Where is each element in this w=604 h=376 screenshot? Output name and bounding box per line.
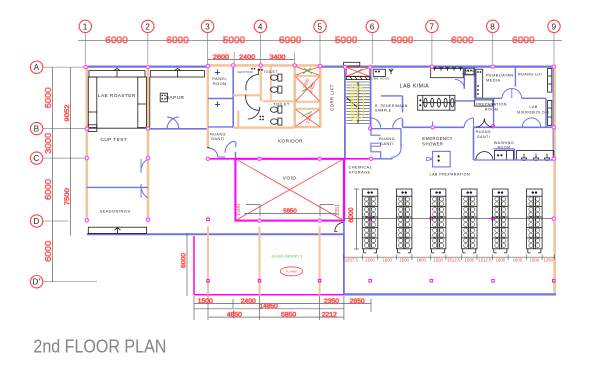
grid bubble 9 bbox=[548, 20, 560, 32]
svg-text:7: 7 bbox=[429, 22, 434, 31]
plant rack 3 bbox=[430, 189, 446, 253]
toilet stall front (peach) bbox=[270, 65, 272, 101]
plant rack 6 bbox=[527, 189, 543, 253]
grid bubble 8 bbox=[487, 20, 499, 32]
svg-text:2nd FLOOR PLAN: 2nd FLOOR PLAN bbox=[33, 335, 166, 356]
svg-text:MEJA: MEJA bbox=[465, 69, 474, 73]
exterior top wall right (blue) bbox=[322, 65, 556, 67]
svg-text:5850: 5850 bbox=[283, 209, 297, 215]
rack msq 1 bbox=[369, 217, 372, 220]
exterior top wall toilet block (peach) bbox=[206, 64, 322, 67]
svg-text:5: 5 bbox=[317, 22, 322, 31]
right shelf 1 bbox=[548, 68, 552, 92]
door arcs wall grid-2 bbox=[141, 159, 148, 173]
janitor door arcs bbox=[246, 75, 259, 111]
bottom dim ext lines bbox=[194, 296, 371, 320]
grid bubble 1 bbox=[79, 20, 91, 32]
lab kimia door arc bbox=[464, 118, 473, 127]
svg-text:14850: 14850 bbox=[259, 304, 278, 310]
svg-text:1512.5: 1512.5 bbox=[478, 257, 492, 262]
svg-text:KORIDOR: KORIDOR bbox=[278, 139, 303, 144]
svg-text:6000: 6000 bbox=[391, 35, 414, 45]
svg-text:3400: 3400 bbox=[270, 54, 287, 61]
lift X bottom bbox=[296, 109, 320, 126]
stove fixture dapur bbox=[160, 93, 167, 102]
void dim bracket bbox=[244, 213, 338, 215]
svg-text:2400: 2400 bbox=[241, 299, 257, 305]
preparation room right wall bbox=[493, 98, 495, 127]
cloud door arcs 2 bbox=[522, 118, 531, 127]
stair right wall (blue) bbox=[370, 67, 372, 129]
cup test partition (blue) bbox=[87, 186, 148, 188]
hall bottom blue segment bbox=[371, 158, 393, 160]
svg-text:5000: 5000 bbox=[335, 35, 358, 45]
ruang ganti right wall bbox=[400, 129, 402, 149]
canopy column 1 (peach) bbox=[207, 227, 209, 295]
svg-text:1500: 1500 bbox=[530, 257, 540, 262]
svg-text:2400: 2400 bbox=[239, 54, 256, 61]
hall node D2 bbox=[146, 218, 149, 221]
svg-text:6: 6 bbox=[370, 22, 375, 31]
svg-text:EMERGENCY: EMERGENCY bbox=[422, 136, 453, 142]
grid line D' bbox=[53, 281, 98, 283]
void node top 1 bbox=[258, 157, 261, 160]
green marks bottom bbox=[302, 112, 312, 117]
top wall node 3 bbox=[206, 64, 209, 67]
svg-text:6000: 6000 bbox=[512, 35, 535, 45]
top wall node 1 bbox=[84, 65, 87, 68]
washing counter bbox=[494, 151, 513, 160]
corridor wall fixture tick bbox=[432, 122, 434, 127]
green marks top bbox=[303, 68, 311, 74]
canopy right wall (blue) bbox=[343, 234, 345, 294]
hall node 3 bbox=[369, 157, 372, 160]
svg-text:2650: 2650 bbox=[350, 299, 366, 305]
svg-text:LAB: LAB bbox=[529, 105, 537, 109]
hall msq D1 bbox=[207, 218, 210, 221]
stair rail yellow 2 bbox=[353, 87, 363, 118]
canopy msq 2 bbox=[258, 280, 261, 283]
grid D line across racks bbox=[344, 218, 554, 220]
ruang ganti locker bbox=[371, 143, 381, 146]
wall2 node C bbox=[146, 156, 149, 159]
svg-text:1500: 1500 bbox=[433, 257, 443, 262]
sink counter bbox=[517, 151, 554, 160]
stair top escalator X bbox=[346, 67, 369, 76]
void node bottom 1 bbox=[258, 219, 261, 222]
svg-text:4850: 4850 bbox=[227, 312, 243, 318]
svg-text:6000: 6000 bbox=[279, 35, 302, 45]
lab roaster bench divider (B-line) bbox=[87, 127, 147, 129]
hall node 1 bbox=[206, 157, 209, 160]
toilet fixture 2 bbox=[271, 86, 282, 93]
svg-text:CORR LIFT: CORR LIFT bbox=[329, 84, 334, 111]
top wall node 2 bbox=[146, 65, 149, 68]
svg-text:DAPUR: DAPUR bbox=[166, 95, 185, 100]
svg-text:CUP TEST: CUP TEST bbox=[100, 137, 127, 142]
svg-text:1800: 1800 bbox=[416, 257, 426, 262]
ruang ganti door arc bbox=[391, 148, 401, 157]
grid bubble 2 bbox=[142, 20, 154, 32]
grid line 6 bbox=[371, 33, 373, 64]
lab prep fixture bbox=[433, 151, 451, 167]
svg-text:9052: 9052 bbox=[64, 104, 71, 121]
svg-text:2600: 2600 bbox=[213, 54, 230, 61]
top wall node 9 bbox=[552, 65, 555, 68]
svg-text:GLASS CANOPY 1: GLASS CANOPY 1 bbox=[272, 254, 304, 259]
corridor node 7 bbox=[431, 126, 434, 129]
left wall node B bbox=[85, 127, 88, 130]
lift node bbox=[319, 64, 322, 67]
pembuatan media bottom wall bbox=[475, 97, 502, 99]
grid line 5 bbox=[319, 33, 321, 64]
svg-text:D: D bbox=[33, 217, 39, 226]
fume hood box bbox=[373, 69, 385, 76]
corridor top wall toilets (peach) bbox=[233, 126, 294, 128]
svg-text:1837.5: 1837.5 bbox=[345, 257, 359, 262]
grid bubble 5 bbox=[314, 20, 326, 32]
ruang ganti top wall bbox=[371, 128, 401, 130]
grid line 7 bbox=[431, 33, 433, 64]
wall grid-2 (peach) bbox=[147, 66, 150, 220]
svg-text:3: 3 bbox=[205, 22, 210, 31]
rack dimension line bbox=[343, 256, 554, 258]
rack zone msq 1 bbox=[369, 280, 372, 283]
left wall node C bbox=[85, 156, 88, 159]
hall node 2 bbox=[258, 157, 261, 160]
canopy dim ext line bbox=[186, 233, 188, 296]
svg-text:1351: 1351 bbox=[335, 204, 341, 216]
grid line 9 bbox=[553, 33, 555, 64]
toilet mid wall (peach) bbox=[263, 100, 295, 102]
panel symbol 1 bbox=[215, 70, 220, 73]
preparation table bbox=[475, 100, 493, 106]
svg-text:TOILET: TOILET bbox=[263, 70, 278, 74]
top wall node j bbox=[232, 64, 235, 67]
lab kimia top bench bbox=[431, 68, 464, 77]
svg-text:C: C bbox=[33, 154, 39, 163]
panel room divider bbox=[208, 98, 233, 100]
svg-text:SHOWER: SHOWER bbox=[422, 142, 443, 148]
hall edge line (magenta) bbox=[208, 158, 371, 160]
svg-text:6000: 6000 bbox=[348, 207, 355, 223]
top wall node 4 bbox=[259, 64, 262, 67]
svg-text:1500: 1500 bbox=[464, 257, 474, 262]
void node top 2 bbox=[318, 157, 321, 160]
long hall wall (blue) bbox=[87, 233, 344, 235]
grid bubble D bbox=[30, 215, 42, 227]
exterior right wall (peach) bbox=[553, 66, 556, 295]
panel room left wall (peach) bbox=[207, 66, 209, 148]
plant rack 2 bbox=[396, 189, 412, 253]
ruang ganti door arc bbox=[209, 148, 225, 157]
rack msq 3 bbox=[492, 217, 495, 220]
toilet fixture 3 bbox=[271, 106, 282, 113]
svg-text:1500: 1500 bbox=[198, 299, 214, 305]
svg-text:LAB PREPARATION: LAB PREPARATION bbox=[429, 173, 470, 177]
r.penerimaan wall top bbox=[381, 95, 403, 97]
plant rack 4 bbox=[462, 189, 478, 253]
plant rack 1 bbox=[362, 189, 378, 253]
left dimension line bbox=[52, 67, 54, 282]
svg-text:RUANG: RUANG bbox=[476, 130, 491, 134]
stair landing hatch bbox=[346, 77, 369, 80]
meja timbang right wall bbox=[474, 67, 476, 99]
svg-text:ROOM: ROOM bbox=[213, 81, 227, 86]
top dimension line bbox=[78, 40, 562, 42]
lab roaster left counter bbox=[88, 77, 97, 128]
svg-text:6000: 6000 bbox=[43, 179, 53, 200]
bottom dim line 3 bbox=[209, 316, 344, 318]
canopy column 3 (peach) bbox=[319, 227, 321, 295]
washing room walls bbox=[494, 148, 515, 150]
svg-text:5000: 5000 bbox=[223, 35, 246, 45]
stair hall double door arcs bbox=[371, 118, 403, 128]
chemical storage door arc bbox=[335, 222, 344, 231]
svg-text:1500: 1500 bbox=[399, 257, 409, 262]
grid line D bbox=[53, 220, 69, 222]
corridor node right bbox=[552, 126, 555, 129]
canopy bottom edge (magenta) bbox=[194, 294, 344, 296]
panel room bottom wall bbox=[208, 126, 233, 128]
svg-text:GANTI: GANTI bbox=[477, 135, 490, 139]
svg-text:6000: 6000 bbox=[166, 35, 189, 45]
lab mikro divider wall bbox=[545, 98, 547, 127]
svg-text:GANTI: GANTI bbox=[211, 137, 225, 141]
grid bubble 3 bbox=[201, 20, 213, 32]
rack height dim line bbox=[356, 189, 358, 249]
stair wall node top bbox=[369, 66, 372, 69]
meja timbang door arc bbox=[455, 80, 464, 89]
grid bubble A bbox=[30, 61, 42, 73]
grid bubble 4 bbox=[254, 20, 266, 32]
lift shaft frame (peach) bbox=[293, 65, 296, 128]
rack node right bbox=[552, 217, 555, 220]
svg-text:ROOM: ROOM bbox=[485, 107, 498, 111]
lab kimia center bench bbox=[418, 95, 455, 110]
void node bottom 2 bbox=[318, 219, 321, 222]
toilet door dots bbox=[259, 116, 264, 121]
cloud door arcs 1 bbox=[502, 89, 512, 99]
hall node D0 bbox=[85, 219, 88, 222]
panel room right wall (blue) bbox=[232, 66, 234, 128]
void-canopy connector bbox=[343, 221, 345, 234]
plant rack 5 bbox=[493, 189, 509, 253]
toilet fixture 4 bbox=[271, 118, 282, 125]
ruang ganti r wall left bbox=[473, 127, 475, 160]
secondary top dimension line bbox=[208, 59, 295, 61]
svg-text:7500: 7500 bbox=[64, 188, 71, 205]
svg-text:8: 8 bbox=[490, 22, 495, 31]
toilet door arc 2 bbox=[248, 107, 260, 119]
svg-text:6000: 6000 bbox=[43, 87, 53, 108]
meja timbang table bbox=[465, 68, 474, 75]
swing doors black 1 bbox=[476, 118, 493, 127]
svg-text:FUME HOOD: FUME HOOD bbox=[369, 77, 389, 81]
svg-text:6000: 6000 bbox=[105, 35, 128, 45]
grid bubble 6 bbox=[366, 20, 378, 32]
grid line B bbox=[53, 128, 87, 130]
pembuatan media shelf bbox=[476, 69, 483, 98]
grid bubble 7 bbox=[426, 20, 438, 32]
bottom-right exterior wall (blue) bbox=[343, 293, 556, 295]
grid line C bbox=[53, 157, 87, 159]
svg-text:PREPARATION: PREPARATION bbox=[476, 102, 507, 106]
canopy level ellipse bbox=[280, 267, 302, 276]
svg-text:2212: 2212 bbox=[322, 312, 338, 318]
bottom dim line 2 bbox=[194, 308, 344, 310]
svg-text:1500: 1500 bbox=[365, 257, 375, 262]
exterior left wall (peach) bbox=[86, 66, 89, 221]
svg-text:D': D' bbox=[32, 278, 40, 287]
glassware symbol bbox=[389, 69, 394, 75]
top wall node stair bbox=[343, 65, 346, 68]
svg-text:RUANG: RUANG bbox=[379, 137, 395, 141]
svg-text:WASHING: WASHING bbox=[494, 141, 514, 145]
janitor-toilet divider (peach) bbox=[260, 65, 262, 101]
canopy msq 3 bbox=[318, 280, 321, 283]
panel symbol 2 bbox=[215, 102, 220, 105]
lab roaster top counter bbox=[89, 71, 145, 77]
green marks stair bbox=[352, 69, 362, 75]
dapur bottom wall (blue) bbox=[148, 128, 208, 130]
svg-text:STORAGE: STORAGE bbox=[349, 170, 371, 175]
janitor bottom wall (peach) bbox=[233, 94, 260, 96]
canopy msq 1 bbox=[207, 280, 210, 283]
grid line 3 bbox=[207, 33, 209, 64]
lift X mid bbox=[296, 77, 320, 102]
rack zone msq 2 bbox=[430, 280, 433, 283]
washing bottom wall bbox=[474, 159, 554, 161]
lab roaster right counter bbox=[138, 77, 147, 128]
svg-text:6000: 6000 bbox=[43, 241, 53, 262]
svg-text:TIMBANG: TIMBANG bbox=[462, 72, 477, 76]
shower symbol bbox=[427, 157, 432, 161]
hall jog door cloud bbox=[225, 141, 236, 153]
svg-text:6000: 6000 bbox=[451, 35, 474, 45]
svg-text:R. PENERIMAAN: R. PENERIMAAN bbox=[375, 104, 408, 108]
dapur double door bbox=[167, 117, 179, 129]
grid bubble C bbox=[30, 152, 42, 164]
svg-text:1500: 1500 bbox=[236, 204, 242, 216]
svg-text:LAB ROASTER: LAB ROASTER bbox=[98, 93, 136, 98]
svg-text:9: 9 bbox=[551, 22, 556, 31]
corridor wall (blue) bbox=[403, 126, 465, 128]
grid line 4 bbox=[259, 33, 261, 64]
chemical storage wall (magenta) bbox=[343, 159, 345, 221]
swing doors black 2 bbox=[476, 152, 493, 161]
svg-text:FL+4850: FL+4850 bbox=[286, 270, 298, 274]
pembuatan-ruanguji divider bbox=[514, 67, 516, 87]
svg-text:RUANG: RUANG bbox=[210, 132, 226, 136]
svg-text:MIKROBIOLOGI: MIKROBIOLOGI bbox=[517, 110, 550, 114]
svg-text:LAB KIMIA: LAB KIMIA bbox=[400, 84, 430, 90]
seasonings counter bbox=[88, 227, 146, 233]
corridor node 8 bbox=[491, 125, 494, 128]
svg-text:1500: 1500 bbox=[496, 257, 506, 262]
grid line 2 bbox=[147, 33, 149, 64]
grid bubble D' bbox=[30, 276, 42, 288]
stair top slab bbox=[344, 62, 360, 66]
stair wall node bottom bbox=[369, 127, 372, 130]
svg-text:1512.5: 1512.5 bbox=[447, 257, 461, 262]
top wall node 8 bbox=[491, 65, 494, 68]
wall end tick bbox=[207, 147, 210, 149]
right node C-line bbox=[552, 157, 555, 160]
grid line 1 bbox=[84, 33, 86, 64]
svg-text:MEDIA: MEDIA bbox=[486, 78, 501, 83]
svg-text:2350: 2350 bbox=[324, 299, 340, 305]
svg-text:A: A bbox=[34, 63, 40, 72]
svg-text:3000: 3000 bbox=[43, 133, 53, 154]
svg-text:1800: 1800 bbox=[382, 257, 392, 262]
stair left wall (blue) bbox=[344, 67, 346, 159]
right shelf 2 bbox=[548, 100, 552, 125]
svg-text:6000: 6000 bbox=[181, 252, 188, 268]
grid line A bbox=[53, 66, 86, 68]
svg-text:1: 1 bbox=[83, 22, 88, 31]
rack zone msq 4 bbox=[553, 280, 556, 283]
stair treads bbox=[346, 82, 369, 124]
svg-text:1800: 1800 bbox=[513, 257, 523, 262]
ruang ganti left zigzag bbox=[371, 129, 381, 136]
svg-text:4: 4 bbox=[258, 22, 263, 31]
dapur top counter bbox=[150, 71, 204, 77]
svg-text:TOILET: TOILET bbox=[273, 101, 290, 106]
top wall node 5 bbox=[318, 65, 321, 68]
canopy left edge (magenta) bbox=[193, 236, 195, 295]
green marks mid bbox=[302, 86, 312, 92]
svg-text:JANITOR: JANITOR bbox=[237, 70, 253, 74]
left dimension line 2 bbox=[69, 67, 71, 235]
top wall node 7 bbox=[430, 65, 433, 68]
grid bubble B bbox=[30, 122, 42, 134]
void diagonal 2 bbox=[235, 159, 344, 221]
svg-text:RUANG UJI: RUANG UJI bbox=[518, 72, 542, 76]
void box (magenta) bbox=[235, 159, 344, 221]
lift X top bbox=[296, 67, 320, 76]
stair rail yellow 1 bbox=[351, 84, 357, 121]
void diagonal 1 bbox=[235, 159, 344, 221]
svg-text:VOID: VOID bbox=[283, 176, 297, 182]
toilet stall wall (peach) bbox=[237, 111, 239, 128]
bottom dim line 1 bbox=[194, 303, 371, 305]
svg-text:SAMPLE: SAMPLE bbox=[375, 108, 392, 112]
exterior top wall left (blue) bbox=[86, 65, 208, 67]
wall2 node B bbox=[146, 127, 149, 130]
rack msq 2 bbox=[430, 217, 433, 220]
svg-text:2: 2 bbox=[145, 22, 150, 31]
canopy column 2 (peach) bbox=[259, 227, 261, 295]
svg-text:1250: 1250 bbox=[544, 257, 554, 262]
top wall node lift bbox=[293, 64, 296, 67]
svg-text:5850: 5850 bbox=[281, 312, 297, 318]
meja timbang left wall bbox=[463, 67, 465, 89]
preparation room top wall bbox=[455, 100, 475, 102]
toilet fixture 1 bbox=[271, 74, 282, 81]
svg-text:SEASONINGS: SEASONINGS bbox=[100, 209, 131, 214]
grid line 8 bbox=[492, 33, 494, 64]
hall jog wall bbox=[235, 152, 237, 159]
rack zone msq 3 bbox=[492, 280, 495, 283]
right wall inner blue line bbox=[552, 67, 554, 159]
dapur left counter line bbox=[149, 77, 151, 128]
svg-text:GANTI: GANTI bbox=[380, 142, 394, 146]
svg-text:B: B bbox=[34, 125, 40, 134]
r.penerimaan wall right bbox=[402, 96, 404, 112]
